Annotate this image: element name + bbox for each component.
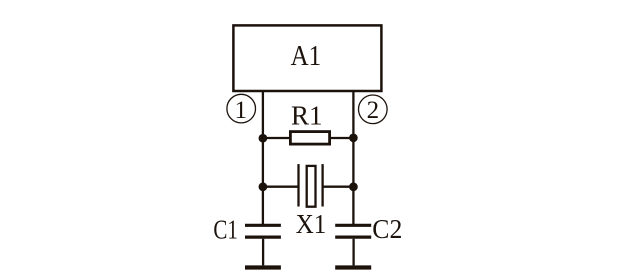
svg-text:1: 1 [235,97,248,124]
wire left pin vertical [262,91,264,225]
svg-text:X1: X1 [296,209,327,239]
svg-text:R1: R1 [291,101,323,131]
wire C2 to ground [352,239,354,266]
pin 1 [227,94,256,124]
svg-text:A1: A1 [291,41,322,72]
node junction dot right R1 [349,133,358,142]
capacitor C2 top plate [335,224,371,227]
ground under C1 [245,265,281,269]
capacitor C1 bottom plate [245,236,281,239]
svg-text:2: 2 [367,97,380,124]
node junction dot left X1 [259,182,268,191]
pin 2 [359,95,388,124]
IC box A1 [233,25,381,91]
node junction dot right X1 [349,182,358,191]
wire R1 horizontal [263,137,354,139]
wire X1 horizontal left [263,186,299,188]
node junction dot left R1 [259,134,268,143]
ground under C2 [335,265,371,269]
capacitor C1 top plate [245,224,281,227]
crystal X1 right electrode [321,164,323,206]
wire right pin vertical [352,91,354,225]
crystal X1 body [307,166,316,207]
svg-text:C2: C2 [372,214,402,244]
svg-text:C1: C1 [213,215,238,245]
crystal X1 left electrode [297,164,299,206]
resistor R1 body [290,132,329,145]
wire C1 to ground [262,239,264,266]
wire X1 horizontal right [323,186,354,188]
capacitor C2 bottom plate [335,236,371,239]
